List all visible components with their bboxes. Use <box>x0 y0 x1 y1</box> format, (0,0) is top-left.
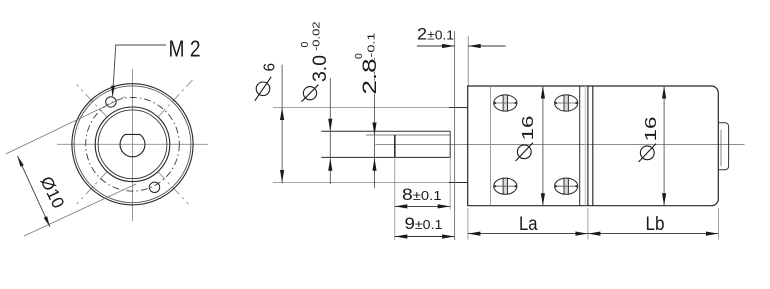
dim Ø16 gearbox arrow down <box>541 193 545 206</box>
label Ø6 diameter symbol <box>256 82 270 96</box>
dim 2±0.1 left segment <box>417 45 455 47</box>
boss top edge extension left <box>273 107 449 109</box>
body outline gearbox and motor <box>468 86 719 206</box>
boss bottom edge <box>449 182 468 184</box>
boss top edge <box>449 107 468 109</box>
dim Ø16 motor arrow up <box>662 86 666 99</box>
svg-text:0: 0 <box>353 53 365 59</box>
motor end cap inner line <box>720 130 722 167</box>
main horizontal centerline <box>376 144 745 146</box>
front ring outer circle <box>95 107 170 182</box>
outer body circle <box>72 84 193 205</box>
label Ø16 gearbox diameter symbol <box>517 145 531 159</box>
screw D bottom-right <box>555 178 578 195</box>
motor face line <box>587 86 589 206</box>
shaft bottom edge <box>321 156 450 158</box>
motor end cap <box>718 123 728 170</box>
svg-text:2.8: 2.8 <box>360 59 381 95</box>
dim 2.8 arrow up-pointing <box>372 158 376 171</box>
dim 8±0.1 dimension line <box>395 205 450 207</box>
svg-text:16: 16 <box>643 116 660 141</box>
dim Ø3.0 dimension line <box>329 78 331 184</box>
extension below flat transition <box>394 157 396 240</box>
shaft flat transition line <box>394 135 396 157</box>
screw B top-right <box>555 94 578 111</box>
shaft top edge <box>321 130 450 132</box>
dim La left arrow <box>468 232 481 236</box>
dim 2.8 arrow down-pointing <box>372 123 376 136</box>
shaft hole with D-flat <box>120 134 145 156</box>
dim La right arrow <box>575 232 588 236</box>
svg-text:16: 16 <box>520 115 537 140</box>
diagonal centerline tick upper-right <box>158 80 192 117</box>
dim 2±0.1 right segment <box>468 45 505 47</box>
diagonal centerline tick lower-right <box>158 172 188 204</box>
dim 8±0.1 left arrow <box>395 204 408 208</box>
screw C bottom-left <box>494 178 517 195</box>
dim Lb left arrow <box>588 232 601 236</box>
dim Ø10 extension line upper <box>6 97 125 154</box>
La Lb shared extension <box>587 208 589 240</box>
svg-text:-0.1: -0.1 <box>366 32 378 57</box>
M2 screw hole bottom-right <box>149 182 159 192</box>
horizontal centerline <box>57 143 208 145</box>
dim Ø6 arrow down <box>280 170 284 183</box>
junction light line <box>584 86 586 206</box>
shaft end face <box>449 131 451 157</box>
dim Ø10 arrow lower <box>44 216 50 227</box>
svg-text:6: 6 <box>262 63 279 72</box>
M2 leader arrow <box>111 86 115 97</box>
svg-text:La: La <box>519 214 538 235</box>
M2 leader line <box>113 45 166 96</box>
svg-text:3.0: 3.0 <box>310 55 331 82</box>
dim Ø16 gearbox arrow up <box>541 86 545 99</box>
dim 8±0.1 right arrow <box>438 204 451 208</box>
dim Ø10 arrow upper <box>18 156 24 167</box>
dim 2±0.1 left arrow <box>442 44 455 48</box>
svg-text:8±0.1: 8±0.1 <box>402 185 442 204</box>
motor can left edge <box>592 86 594 206</box>
dim Ø16 motor arrow down <box>662 193 666 206</box>
extension below shaft end <box>449 157 451 209</box>
front ring inner circle <box>98 110 167 179</box>
label Ø3.0 diameter symbol <box>303 87 316 100</box>
diagonal centerline tick upper-left <box>77 84 107 116</box>
dim 9±0.1 left arrow <box>395 234 408 238</box>
dim 9±0.1 right arrow <box>442 234 455 238</box>
screw A top-left <box>494 94 517 111</box>
dim 2±0.1 right arrow <box>468 44 481 48</box>
diagonal centerline tick lower-left <box>77 172 107 204</box>
vertical centerline <box>132 69 134 221</box>
2-dim right extension <box>467 36 469 86</box>
La left extension <box>467 208 469 240</box>
Lb right extension <box>717 208 719 240</box>
shaft flat edge <box>366 134 450 136</box>
dim Ø10 extension line lower <box>24 184 136 236</box>
svg-text:Lb: Lb <box>646 214 665 235</box>
svg-text:9±0.1: 9±0.1 <box>405 214 443 233</box>
dim Ø3.0 arrow up-pointing <box>328 158 332 171</box>
dim Ø16 motor dimension line <box>663 86 665 206</box>
boss face and 2-dim left extension <box>454 31 456 240</box>
gearbox front band line <box>490 86 492 206</box>
dim Lb dimension line <box>588 233 719 235</box>
M2 screw hole top-left <box>106 97 116 107</box>
svg-text:0: 0 <box>299 42 311 48</box>
dim 2.8 dimension line <box>374 58 376 188</box>
svg-text:M 2: M 2 <box>169 36 201 62</box>
outer chamfer circle <box>74 86 191 203</box>
dim Ø16 gearbox dimension line <box>542 86 544 206</box>
bolt circle dash-dot <box>86 98 180 192</box>
dim Ø6 dimension line <box>281 65 283 184</box>
boss bottom edge extension left <box>273 182 449 184</box>
dim Ø6 arrow up <box>280 108 284 121</box>
dim Ø3.0 arrow down-pointing <box>328 119 332 132</box>
dim Lb right arrow <box>706 232 719 236</box>
dim La dimension line <box>468 233 588 235</box>
svg-text:-0.02: -0.02 <box>311 21 323 51</box>
label Ø16 motor diameter symbol <box>640 146 654 160</box>
dim 9±0.1 dimension line <box>395 236 455 238</box>
gearbox right edge <box>579 86 581 206</box>
svg-text:2±0.1: 2±0.1 <box>417 25 454 44</box>
dim Ø10 dimension line <box>18 156 51 227</box>
